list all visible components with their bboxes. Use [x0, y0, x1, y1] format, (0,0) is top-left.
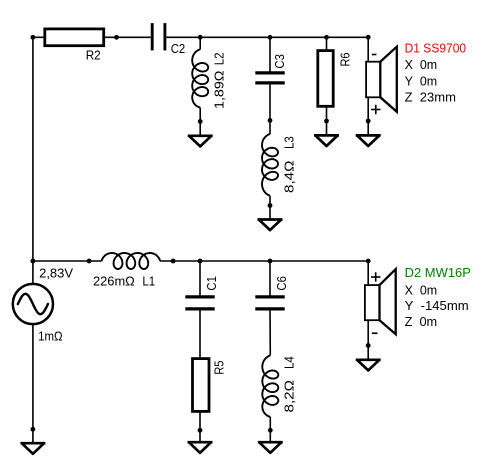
junction C3-L3 [268, 118, 273, 123]
svg-text:C2: C2 [171, 41, 186, 56]
ground L2 [188, 136, 213, 147]
capacitor C3 [255, 54, 287, 83]
wire L2 branch top [199, 37, 201, 49]
svg-text:L4: L4 [282, 356, 297, 369]
wire R5 to ground [199, 411, 201, 441]
wire R6 branch top [326, 37, 328, 50]
wire bottom rail right segment [160, 260, 368, 262]
svg-text:8,2Ω: 8,2Ω [282, 380, 297, 413]
wire C3 branch top [269, 37, 271, 73]
junction L2 bottom [198, 119, 203, 124]
inductor L1 [93, 253, 160, 288]
ground L4 [258, 442, 283, 453]
svg-text:L2: L2 [211, 53, 226, 66]
ground D2 [356, 360, 381, 371]
capacitor C6 [255, 276, 289, 309]
inductor L2 [192, 49, 226, 109]
junction C1 top [198, 259, 203, 264]
ground D1 [356, 135, 381, 146]
junction C6 top [268, 259, 273, 264]
driver D1 speaker symbol [366, 47, 397, 112]
wire C6 branch top [269, 261, 271, 297]
wire left rail upper [32, 37, 34, 284]
D1 minus terminal [372, 54, 377, 56]
svg-text:2,83V: 2,83V [39, 265, 73, 280]
ground R5 [188, 442, 213, 453]
junction L1 left [87, 259, 92, 264]
inductor L3 [262, 134, 297, 196]
resistor R5 [193, 359, 227, 412]
svg-text:C1: C1 [204, 276, 219, 291]
svg-text:D1 SS9700: D1 SS9700 [405, 40, 467, 55]
svg-text:Y -145mm: Y -145mm [405, 298, 469, 313]
ground R6 [314, 135, 339, 146]
wire L3 to ground [269, 196, 271, 219]
capacitor C2 [152, 23, 185, 56]
inductor L4 [262, 355, 296, 417]
wire L2 branch bottom [199, 108, 201, 136]
svg-text:Y 0m: Y 0m [405, 73, 438, 88]
wire D2 branch top [367, 261, 369, 286]
junction C3 top [268, 35, 273, 40]
wire C3 to L3 [269, 83, 271, 134]
svg-text:C3: C3 [272, 54, 287, 69]
wire C6 to L4 [269, 309, 271, 356]
capacitor C1 [185, 276, 219, 309]
svg-text:L1: L1 [142, 273, 155, 288]
junction C2-L2 [198, 35, 203, 40]
svg-text:X 0m: X 0m [405, 57, 438, 72]
svg-text:C6: C6 [274, 276, 289, 291]
wire L4 to ground [269, 417, 271, 442]
wire R6 to ground [326, 106, 328, 135]
wire left rail lower [32, 324, 34, 443]
wire D1 branch top [367, 37, 369, 62]
svg-text:X 0m: X 0m [405, 282, 438, 297]
junction D2 top [366, 259, 371, 264]
wire top rail left segment [33, 36, 151, 38]
junction R5 bottom [198, 428, 203, 433]
svg-text:D2 MW16P: D2 MW16P [405, 265, 471, 280]
svg-text:1mΩ: 1mΩ [38, 328, 63, 343]
resistor R6 [318, 51, 353, 107]
D2 minus terminal [372, 332, 378, 334]
ground L3 [258, 220, 283, 231]
svg-text:Z 0m: Z 0m [405, 314, 438, 329]
junction D2 bottom [366, 343, 371, 348]
ground source [20, 443, 45, 454]
D1 plus terminal [371, 105, 380, 114]
junction R2-C2 [114, 35, 119, 40]
svg-text:R2: R2 [86, 48, 101, 63]
svg-text:R6: R6 [337, 53, 352, 67]
svg-text:226mΩ: 226mΩ [93, 273, 135, 288]
wire D2 to ground [367, 320, 369, 360]
node top-left junction [31, 35, 36, 40]
svg-text:8,4Ω: 8,4Ω [282, 160, 297, 193]
junction D1 top [366, 35, 371, 40]
junction R6 top [324, 35, 329, 40]
junction D1 bottom [366, 119, 371, 124]
junction R6 bottom [324, 119, 329, 124]
svg-text:L3: L3 [282, 136, 297, 149]
D2 plus terminal [371, 272, 380, 281]
wire bottom rail left segment [33, 260, 102, 262]
svg-text:R5: R5 [211, 361, 226, 375]
wire D1 to ground [367, 96, 369, 135]
resistor R2 [45, 29, 104, 63]
svg-text:Z 23mm: Z 23mm [405, 90, 456, 105]
svg-text:1,89Ω: 1,89Ω [211, 70, 226, 109]
wire C1 branch top [199, 261, 201, 297]
junction L1 right [171, 259, 176, 264]
driver D2 speaker symbol [365, 269, 396, 334]
wire C1 to R5 [199, 309, 201, 359]
junction L3 bottom [268, 203, 273, 208]
junction L4 bottom [268, 428, 273, 433]
junction source bottom [31, 427, 36, 432]
wire top rail right segment [166, 36, 368, 38]
voltage source V1 [13, 265, 74, 343]
node source junction [31, 259, 36, 264]
